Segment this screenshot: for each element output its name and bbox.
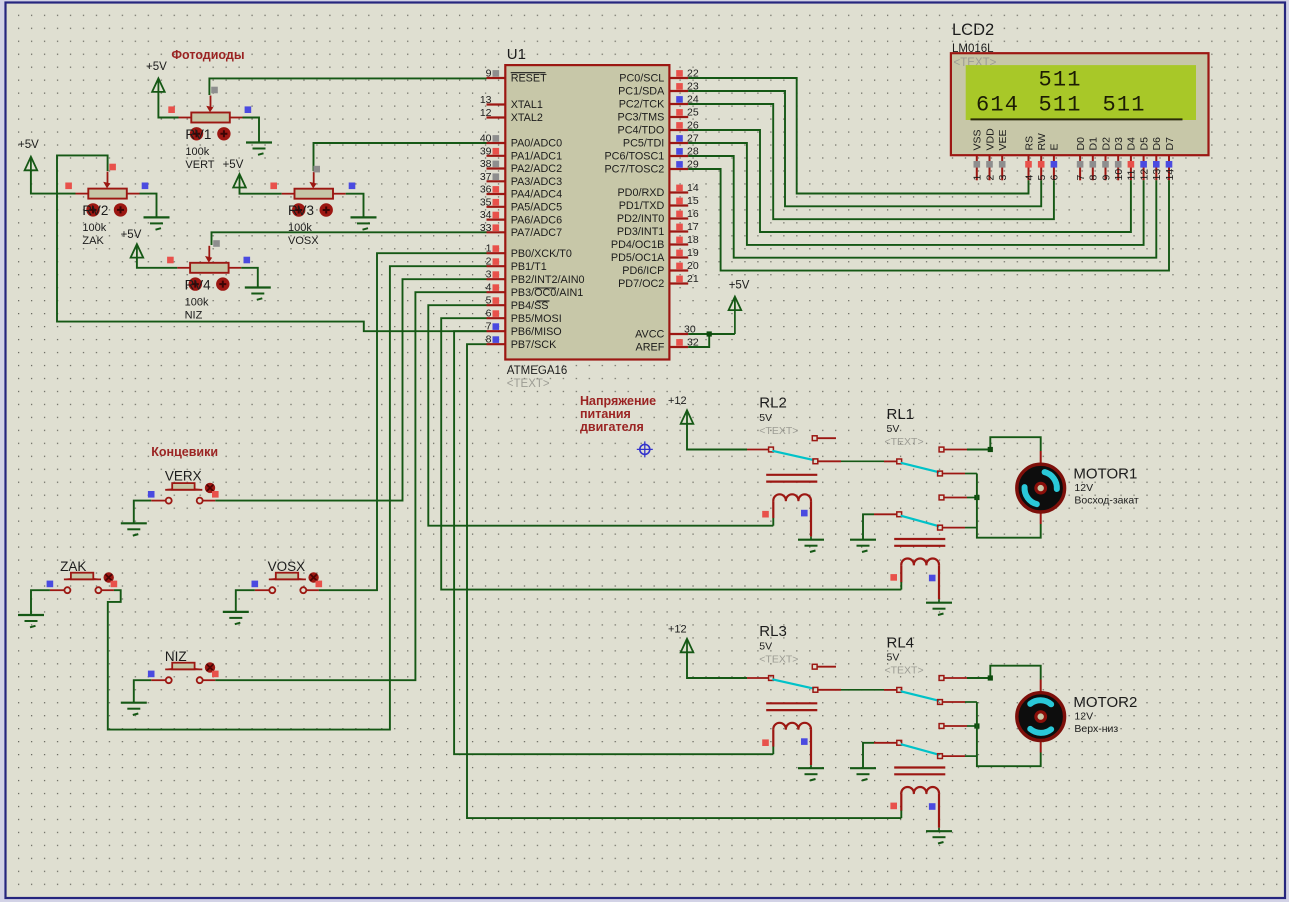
chip U1 left pin 38 PA2/ADC2 [487, 167, 506, 169]
ground ZAK [18, 614, 44, 616]
wire RL1 C to vertical [965, 473, 977, 475]
svg-text:D3: D3 [1113, 137, 1125, 151]
chip U1 right pin 16 PD2/INT0 [669, 217, 688, 219]
svg-text:2: 2 [486, 256, 492, 268]
svg-text:511: 511 [1039, 93, 1082, 118]
svg-text:17: 17 [687, 221, 699, 233]
chip U1 right pin 15 PD1/TXD [669, 204, 688, 206]
RV2 knobs [86, 203, 99, 216]
chip U1 right pin 23 PC1/SDA [669, 90, 688, 92]
wire PB3 to NIZ [215, 292, 486, 680]
svg-text:35: 35 [480, 196, 492, 208]
svg-text:PB1/T1: PB1/T1 [511, 261, 547, 273]
svg-text:VDD: VDD [984, 128, 996, 151]
RV4 wiper wire to PA7 [212, 232, 487, 245]
svg-text:511: 511 [1039, 68, 1082, 93]
svg-text:NIZ: NIZ [185, 309, 203, 321]
svg-text:34: 34 [480, 209, 492, 221]
svg-text:MOTOR1: MOTOR1 [1073, 466, 1137, 483]
junction RL4 A [988, 675, 993, 680]
svg-text:8: 8 [1088, 175, 1100, 181]
svg-text:2: 2 [984, 175, 996, 181]
relay RL4 contact D [939, 724, 944, 729]
wire PB4 to RL2 coil [428, 305, 773, 526]
svg-text:Восход-закат: Восход-закат [1074, 495, 1139, 507]
ground RL2 coil [798, 539, 824, 541]
svg-text:13: 13 [480, 94, 492, 106]
svg-text:XTAL1: XTAL1 [511, 99, 543, 111]
wire AVCC node [688, 333, 735, 335]
svg-text:+5V: +5V [729, 280, 750, 292]
relay RL4 pole2 stub [874, 742, 897, 744]
svg-text:U1: U1 [507, 46, 526, 63]
chip U1 right pin 27 PC5/TDI [669, 142, 688, 144]
svg-text:ZAK: ZAK [82, 235, 104, 247]
svg-text:PD7/OC2: PD7/OC2 [618, 278, 664, 290]
relay RL2 throw contact [813, 459, 818, 464]
svg-text:PB3/OC0/AIN1: PB3/OC0/AIN1 [511, 287, 584, 299]
svg-text:5V: 5V [759, 412, 772, 424]
button ZAK [50, 589, 64, 591]
svg-text:PC4/TDO: PC4/TDO [618, 125, 665, 137]
svg-text:PD3/INT1: PD3/INT1 [617, 226, 664, 238]
svg-text:14: 14 [1164, 169, 1176, 181]
svg-text:8: 8 [486, 334, 492, 346]
relay RL3 pole stub [747, 677, 768, 679]
svg-text:VSS: VSS [972, 129, 984, 150]
svg-text:PD4/OC1B: PD4/OC1B [611, 239, 664, 251]
wire VERX left to ground [134, 501, 151, 524]
svg-text:LCD2: LCD2 [952, 21, 994, 39]
wire RL2 coil left leg [772, 518, 774, 526]
motor bottom pin [1040, 511, 1042, 524]
chip U1 right pin 22 PC0/SCL [669, 77, 688, 79]
relay RL3 unused throw [812, 664, 817, 669]
ZAK state square left [47, 581, 54, 588]
relay RL4 pole stub [884, 689, 897, 691]
RL4 state square blue [929, 803, 936, 810]
svg-text:<TEXT>: <TEXT> [759, 425, 798, 437]
relay RL1 lever 1 [901, 463, 940, 473]
svg-text:RV4: RV4 [185, 277, 212, 292]
wire RL4 coil left leg [900, 811, 902, 819]
svg-text:D5: D5 [1138, 137, 1150, 151]
svg-text:PB5/MOSI: PB5/MOSI [511, 313, 562, 325]
svg-text:5V: 5V [887, 423, 900, 435]
svg-text:PC2/TCK: PC2/TCK [619, 99, 665, 111]
power +12 arrow RL3 [681, 639, 694, 653]
RL2 state square red [762, 511, 769, 518]
relay RL4 coil [894, 766, 945, 768]
power +5V arrow RV1 [152, 78, 165, 92]
RL1 state square red [890, 574, 897, 581]
svg-text:12: 12 [480, 107, 492, 119]
chip U1 right pin 30 AVCC [669, 333, 688, 335]
wire PB2 to VERX [215, 279, 486, 500]
svg-text:MOTOR2: MOTOR2 [1073, 694, 1137, 711]
motor MOTOR1 [1017, 464, 1065, 512]
RV1 state square wiper [211, 87, 218, 94]
ground RL1 coil [926, 602, 952, 604]
motor top pin [1040, 680, 1042, 693]
svg-text:PB4/SS: PB4/SS [511, 300, 549, 312]
LCD2 screen cursor line [971, 118, 1183, 120]
chip U1 body [505, 65, 669, 359]
svg-text:RL3: RL3 [759, 623, 787, 640]
RL2 state square blue [801, 510, 808, 517]
svg-text:E: E [1049, 143, 1061, 150]
svg-text:4: 4 [486, 282, 492, 294]
chip U1 right pin 21 PD7/OC2 [669, 282, 688, 284]
RL1 state square blue [929, 575, 936, 582]
relay RL2 pole stub [747, 449, 768, 451]
relay RL4 contact C [938, 700, 943, 705]
motor top pin [1040, 451, 1042, 464]
ground RV1 [246, 141, 272, 143]
chip U1 left pin 2 PB1/T1 [487, 265, 506, 267]
svg-text:VERX: VERX [165, 468, 202, 483]
RV3 state square left [270, 183, 277, 190]
junction RL4 D [974, 723, 979, 728]
ground NIZ [121, 702, 147, 704]
svg-text:D2: D2 [1100, 137, 1112, 151]
wire RL4 C to vertical [965, 701, 977, 703]
button NIZ [151, 679, 165, 681]
svg-text:5: 5 [1036, 175, 1048, 181]
wire chip pin 28->D6 [688, 156, 1156, 258]
power +5V arrow RV3 [233, 174, 246, 188]
svg-text:D7: D7 [1164, 137, 1176, 151]
ZAK state square right [111, 581, 118, 588]
relay RL4 contact A [939, 676, 944, 681]
wire RL1 coil left leg [900, 582, 902, 590]
ground RL4 pole2 [850, 767, 876, 769]
svg-text:VOSX: VOSX [288, 235, 319, 247]
svg-text:PA5/ADC5: PA5/ADC5 [511, 202, 562, 214]
wire RL1 F to vertical [965, 527, 977, 529]
VERX state square left [148, 491, 155, 498]
RV2 state square left [65, 183, 72, 190]
relay RL3 coil [766, 702, 817, 704]
RV3 wiper wire to PA0 [314, 143, 487, 171]
VOSX state square right [316, 581, 323, 588]
svg-text:11: 11 [1126, 169, 1138, 180]
svg-text:19: 19 [687, 247, 699, 259]
chip U1 left pin 37 PA3/ADC3 [487, 180, 506, 182]
svg-text:5V: 5V [887, 652, 900, 664]
svg-text:RV1: RV1 [185, 127, 211, 142]
potentiometer RV1 [179, 117, 192, 119]
wire RL1 pole2 to ground [863, 514, 874, 539]
RV3 knobs [292, 203, 305, 216]
RV1 state square left [168, 106, 175, 113]
wire RL4 vertical to motor bottom [977, 702, 1041, 766]
wire chip pin 26->D4 [688, 130, 1131, 232]
svg-text:100k: 100k [82, 222, 106, 234]
svg-text:+12: +12 [668, 624, 687, 636]
origin crosshair marker [640, 444, 650, 454]
ground VOSX [223, 611, 249, 613]
chip U1 left pin 39 PA1/ADC1 [487, 155, 506, 157]
svg-text:Верх-низ: Верх-низ [1074, 723, 1118, 735]
wire chip pin 29->D7 [688, 169, 1169, 271]
svg-text:PD2/INT0: PD2/INT0 [617, 213, 664, 225]
NIZ state square left [148, 671, 155, 678]
RV4 knobs [189, 277, 202, 290]
wire RL4 D to vertical [967, 725, 977, 727]
power +5V arrow RV4 [131, 244, 144, 258]
svg-text:ZAK: ZAK [60, 559, 86, 574]
svg-text:<TEXT>: <TEXT> [885, 436, 924, 448]
chip U1 right pin 32 AREF [669, 346, 688, 348]
RV1 knobs [190, 127, 203, 140]
junction RL1 D [974, 495, 979, 500]
relay RL1 lever 2 [901, 516, 940, 527]
LCD2 body [951, 53, 1209, 155]
motor MOTOR2 [1017, 693, 1065, 741]
relay RL1 coil [894, 538, 945, 540]
wire RV2 right to ground [140, 194, 157, 218]
chip U1 right pin 28 PC6/TOSC1 [669, 155, 688, 157]
svg-text:RESET: RESET [511, 73, 547, 85]
svg-text:7: 7 [1075, 175, 1087, 181]
RV4 state square right [244, 257, 251, 264]
chip U1 right pin 14 PD0/RXD [669, 191, 688, 193]
svg-text:D1: D1 [1088, 137, 1100, 151]
ground RL4 coil [926, 830, 952, 832]
svg-text:PA2/ADC2: PA2/ADC2 [511, 163, 562, 175]
svg-text:5V: 5V [759, 641, 772, 653]
wire NIZ left to ground [134, 680, 151, 703]
svg-text:3: 3 [486, 269, 492, 281]
chip U1 right pin 20 PD6/ICP [669, 269, 688, 271]
svg-text:RL1: RL1 [887, 406, 915, 423]
svg-text:<TEXT>: <TEXT> [885, 665, 924, 677]
svg-text:PA4/ADC4: PA4/ADC4 [511, 189, 562, 201]
ground RV4 [245, 286, 271, 288]
svg-text:100k: 100k [185, 296, 209, 308]
RL3 state square blue [801, 738, 808, 745]
svg-text:RV2: RV2 [82, 203, 108, 218]
chip U1 left pin 1 PB0/XCK/T0 [487, 252, 506, 254]
relay RL4 lever 1 [901, 691, 940, 701]
relay RL4 lever 2 [901, 744, 940, 755]
svg-text:PB2/INT2/AIN0: PB2/INT2/AIN0 [511, 274, 585, 286]
svg-text:18: 18 [687, 234, 699, 246]
VERX state square right [212, 491, 219, 498]
potentiometer RV4 [177, 267, 190, 269]
svg-text:16: 16 [687, 208, 699, 220]
relay RL4 contact F [938, 754, 943, 759]
svg-text:RV3: RV3 [288, 203, 314, 218]
svg-text:9: 9 [1100, 175, 1112, 181]
svg-text:3: 3 [997, 175, 1009, 181]
wire chip pin 22->RS [688, 78, 1028, 194]
wire PB5 to RL1 coil [441, 318, 901, 589]
ground RV3 [351, 216, 377, 218]
relay RL3 throw contact [813, 687, 818, 692]
svg-text:PC1/SDA: PC1/SDA [618, 86, 665, 98]
wire PB1 to ZAK [108, 266, 487, 729]
svg-text:37: 37 [480, 171, 492, 183]
svg-text:15: 15 [687, 195, 699, 207]
svg-text:10: 10 [1113, 169, 1125, 181]
wire RL4 A to motor top [967, 666, 1041, 680]
svg-text:1: 1 [486, 243, 492, 255]
svg-text:PB6/MISO: PB6/MISO [511, 326, 562, 338]
RV3 state square wiper [313, 166, 320, 173]
svg-text:PC6/TOSC1: PC6/TOSC1 [604, 151, 664, 163]
wire RL1 A to motor top [967, 437, 1041, 451]
svg-text:D0: D0 [1075, 137, 1087, 151]
RV2 state square wiper [109, 164, 116, 171]
chip U1 right pin 29 PC7/TOSC2 [669, 168, 688, 170]
junction RL1 A [988, 447, 993, 452]
svg-text:двигателя: двигателя [580, 420, 644, 434]
RV3 state square right [349, 183, 356, 190]
VOSX state square left [252, 581, 259, 588]
svg-text:PA7/ADC7: PA7/ADC7 [511, 227, 562, 239]
potentiometer RV3 [282, 193, 295, 195]
relay RL1 contact C [938, 471, 943, 476]
relay RL1 pole stub [884, 460, 897, 462]
svg-text:D4: D4 [1126, 137, 1138, 151]
svg-text:XTAL2: XTAL2 [511, 112, 543, 124]
svg-text:VERT: VERT [185, 159, 214, 171]
svg-text:VOSX: VOSX [268, 559, 306, 574]
chip U1 left pin 13 XTAL1 [487, 103, 506, 105]
chip U1 left pin 5 PB4/SS [487, 304, 506, 306]
button VOSX [255, 589, 269, 591]
relay RL2 lever [772, 451, 814, 460]
svg-text:511: 511 [1103, 93, 1146, 118]
potentiometer RV2 [76, 193, 89, 195]
svg-text:13: 13 [1151, 169, 1163, 181]
svg-text:NIZ: NIZ [165, 649, 187, 664]
svg-text:1: 1 [972, 175, 984, 181]
svg-text:6: 6 [486, 308, 492, 320]
svg-text:RS: RS [1023, 136, 1035, 151]
power +12 arrow RL2 [681, 410, 694, 424]
svg-text:<TEXT>: <TEXT> [759, 654, 798, 666]
svg-text:RW: RW [1036, 133, 1048, 150]
svg-text:PC5/TDI: PC5/TDI [623, 138, 664, 150]
chip U1 right pin 17 PD3/INT1 [669, 230, 688, 232]
svg-text:PD1/TXD: PD1/TXD [619, 200, 665, 212]
svg-text:614: 614 [976, 93, 1019, 118]
relay RL1 contact D [939, 495, 944, 500]
NIZ state square right [212, 671, 219, 678]
svg-text:7: 7 [486, 321, 492, 333]
relay RL1 contact A [939, 447, 944, 452]
wire RV3 right to ground [346, 194, 364, 218]
chip U1 left pin 8 PB7/SCK [487, 343, 506, 345]
wire ZAK left to ground [31, 590, 50, 615]
chip U1 right pin 19 PD5/OC1A [669, 256, 688, 258]
chip U1 left pin 9 RESET [487, 77, 506, 79]
junction AVCC [707, 331, 712, 336]
chip U1 left pin 12 XTAL2 [487, 116, 506, 118]
RV1 wiper wire to pin9 [209, 78, 486, 95]
svg-text:PC0/SCL: PC0/SCL [619, 73, 664, 85]
svg-text:Напряжение: Напряжение [580, 394, 656, 408]
wire chip pin 23->RW [688, 91, 1041, 206]
svg-text:+12: +12 [668, 395, 687, 407]
svg-text:12V: 12V [1074, 711, 1093, 723]
RL4 state square red [890, 803, 897, 810]
svg-text:9: 9 [486, 68, 492, 80]
svg-text:20: 20 [687, 260, 699, 272]
wire RL3 throw to RL4 pole [841, 689, 884, 691]
wire RL4 F to vertical [965, 755, 977, 757]
power +5V arrow RV2 [25, 157, 38, 171]
wire RL1 D to vertical [967, 497, 977, 499]
relay RL2 unused throw [812, 436, 817, 441]
ground RL3 coil [798, 767, 824, 769]
relay RL1 contact F [938, 525, 943, 530]
RV1 state square right [245, 106, 252, 113]
RL3 state square red [762, 739, 769, 746]
svg-text:PA0/ADC0: PA0/ADC0 [511, 138, 562, 150]
svg-text:21: 21 [687, 273, 699, 285]
chip U1 left pin 7 PB6/MISO [487, 330, 506, 332]
svg-text:25: 25 [687, 107, 699, 119]
wire RL4 pole2 to ground [863, 743, 874, 768]
relay RL3 lever [772, 679, 814, 688]
wire RL3 coil left leg [772, 747, 774, 755]
svg-text:38: 38 [480, 158, 492, 170]
svg-text:+5V: +5V [121, 229, 142, 241]
svg-text:AVCC: AVCC [635, 329, 664, 341]
chip U1 right pin 24 PC2/TCK [669, 103, 688, 105]
svg-text:5: 5 [486, 295, 492, 307]
ground RV2 [144, 216, 170, 218]
RV2 state square right [142, 183, 149, 190]
svg-text:PC3/TMS: PC3/TMS [618, 112, 665, 124]
svg-text:Концевики: Концевики [151, 445, 218, 459]
chip U1 left pin 40 PA0/ADC0 [487, 142, 506, 144]
chip U1 left pin 4 PB3/OC0/AIN1 [487, 291, 506, 293]
LCD2 screen [966, 65, 1196, 120]
wire VOSX left to ground [236, 590, 255, 612]
chip U1 right pin 18 PD4/OC1B [669, 243, 688, 245]
svg-text:6: 6 [1049, 175, 1061, 181]
svg-text:VEE: VEE [997, 129, 1009, 150]
wire RV1 right to ground [243, 118, 260, 143]
svg-text:PA1/ADC1: PA1/ADC1 [511, 151, 562, 163]
svg-text:PB7/SCK: PB7/SCK [511, 339, 557, 351]
wire RV4 right to ground [241, 268, 257, 288]
svg-text:Фотодиоды: Фотодиоды [171, 48, 244, 62]
svg-text:+5V: +5V [223, 159, 244, 171]
wire RL1 vertical to motor bottom [977, 474, 1041, 538]
RV2 wiper wire [57, 155, 487, 331]
chip U1 left pin 3 PB2/INT2/AIN0 [487, 278, 506, 280]
RV4 state square left [167, 257, 174, 264]
svg-text:ATMEGA16: ATMEGA16 [507, 365, 568, 377]
svg-text:AREF: AREF [636, 342, 665, 354]
power +5V arrow AVCC [729, 297, 742, 311]
svg-text:12V: 12V [1074, 482, 1093, 494]
chip U1 left pin 35 PA5/ADC5 [487, 206, 506, 208]
ground VERX [121, 522, 147, 524]
chip U1 right pin 26 PC4/TDO [669, 129, 688, 131]
svg-text:+5V: +5V [146, 61, 167, 73]
relay RL2 coil [766, 474, 817, 476]
wire chip pin 24->E [688, 104, 1054, 219]
RV4 state square wiper [213, 240, 220, 247]
svg-text:PC7/TOSC2: PC7/TOSC2 [604, 164, 664, 176]
